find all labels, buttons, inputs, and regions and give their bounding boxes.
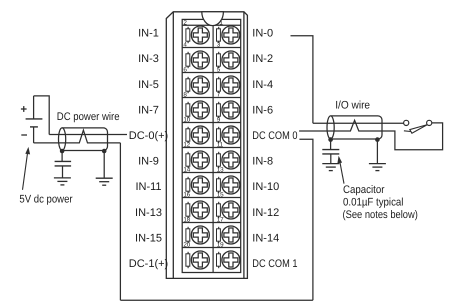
svg-text:19: 19 (217, 241, 224, 248)
wire battery+ top loop to DC-0(+) conductor (34, 96, 50, 135)
screw terminal 4 (pin 8) (191, 101, 209, 119)
svg-text:DC-0(+): DC-0(+) (129, 130, 168, 142)
svg-text:IN-4: IN-4 (252, 79, 273, 91)
screw terminal 2 (pin 3) (222, 51, 240, 69)
svg-text:DC COM 1: DC COM 1 (252, 258, 297, 270)
wire I/O shield right dot to ground (376, 140, 378, 164)
svg-text:IN-15: IN-15 (135, 232, 162, 244)
svg-text:I/O wire: I/O wire (335, 99, 370, 111)
cable jacket I/O wire (331, 116, 382, 139)
label See notes below (343, 209, 418, 221)
svg-text:IN-13: IN-13 (135, 207, 162, 219)
screw terminal 5 (pin 10) (191, 126, 209, 144)
wire clamp row 7 right (217, 177, 221, 193)
svg-text:DC power wire: DC power wire (57, 111, 120, 123)
wire battery- bottom conductor with twist (34, 130, 121, 143)
wire clamp row 7 left (186, 177, 190, 193)
wire clamp row 2 right (217, 52, 221, 68)
svg-text:IN-5: IN-5 (138, 79, 159, 91)
wire clamp row 5 right (217, 127, 221, 143)
svg-text:DC COM 0: DC COM 0 (252, 130, 297, 142)
wire clamp row 3 left (186, 77, 190, 93)
cable end ellipse (59, 128, 66, 151)
svg-text:Capacitor: Capacitor (343, 184, 385, 196)
battery BT1 5V dc power source (26, 96, 43, 143)
wire clamp row 1 left (186, 27, 190, 43)
wire clamp row 10 left (186, 252, 190, 268)
wire clamp row 5 left (186, 127, 190, 143)
wire down-left vertical to bottom rail (119, 143, 121, 300)
arrow from Capacitor label to C2 (337, 156, 344, 184)
ground (capacitor C2) (322, 164, 339, 171)
minus sign of battery (21, 134, 27, 136)
center divider of strip (212, 26, 214, 273)
svg-text:DC-1(+): DC-1(+) (129, 258, 168, 270)
screw terminal 1 (pin 1) (222, 26, 240, 44)
switch S1 left contact (404, 120, 409, 125)
node label DC COM 1 (252, 258, 297, 270)
screw terminal 1 (pin 2) (191, 26, 209, 44)
svg-text:IN-6: IN-6 (252, 104, 273, 116)
wire DC COM 0 branch down to bottom rail (299, 139, 313, 300)
label I/O wire (335, 99, 370, 111)
label 5V dc power (19, 193, 72, 205)
screw terminal 10 (pin 19) (222, 251, 240, 269)
switch S1 right contact (427, 120, 432, 125)
svg-text:IN-0: IN-0 (252, 28, 273, 40)
screw terminal 8 (pin 16) (191, 201, 209, 219)
wire clamp row 8 right (217, 202, 221, 218)
plus sign of battery (21, 106, 27, 112)
screw terminal 6 (pin 12) (191, 151, 209, 169)
wire clamp row 6 right (217, 152, 221, 168)
screw terminal 9 (pin 17) (222, 226, 240, 244)
wire clamp row 2 left (186, 52, 190, 68)
junction dot shield right (102, 149, 107, 154)
svg-text:IN-14: IN-14 (252, 232, 279, 244)
arrow from 5V dc power to wire (23, 147, 31, 190)
wire clamp row 3 right (217, 77, 221, 93)
wire clamp row 4 left (186, 102, 190, 118)
screw terminal 3 (pin 5) (222, 76, 240, 94)
screw terminal 4 (pin 7) (222, 101, 240, 119)
screw terminal 3 (pin 6) (191, 76, 209, 94)
capacitor C2 0.01uF (322, 140, 339, 164)
wire IN-0 to I/O cable (291, 36, 313, 123)
svg-text:5V dc power: 5V dc power (19, 193, 72, 205)
wire clamp row 8 left (186, 202, 190, 218)
svg-text:IN-12: IN-12 (252, 207, 279, 219)
ground (left capacitor) (54, 178, 71, 185)
junction dot I/O shield right (375, 137, 380, 142)
wire clamp row 9 left (186, 227, 190, 243)
junction dot I/O shield left (328, 137, 333, 142)
label DC power wire (57, 111, 120, 123)
wire clamp row 9 right (217, 227, 221, 243)
label Capacitor (343, 184, 385, 196)
svg-text:12: 12 (183, 141, 190, 148)
svg-text:17: 17 (217, 216, 224, 223)
screw terminal 10 (pin 20) (191, 251, 209, 269)
svg-text:IN-10: IN-10 (252, 181, 279, 193)
svg-text:11: 11 (217, 141, 224, 148)
ground (right of DC power wire) (96, 178, 113, 185)
switch S1 lever (404, 125, 428, 134)
svg-text:18: 18 (183, 216, 190, 223)
wire bottom rail (120, 299, 313, 301)
terminal block inner strip (182, 19, 241, 272)
cable jacket DC power wire (62, 128, 107, 151)
wire IN-0 conductor to switch (313, 122, 404, 124)
svg-text:(See notes below): (See notes below) (343, 209, 418, 221)
svg-text:IN-11: IN-11 (135, 181, 161, 193)
screw terminal 7 (pin 14) (191, 176, 209, 194)
svg-text:16: 16 (183, 191, 190, 198)
svg-text:20: 20 (183, 241, 190, 248)
node label DC COM 0 (252, 130, 297, 142)
capacitor C1 (left shield) (55, 151, 72, 178)
svg-text:IN-9: IN-9 (138, 156, 159, 168)
screw terminal 7 (pin 13) (222, 176, 240, 194)
wire clamp row 4 right (217, 102, 221, 118)
wire DC COM 0 conductor with twist, return loop to switch (299, 120, 443, 150)
screw terminal 6 (pin 11) (222, 151, 240, 169)
svg-text:IN-2: IN-2 (252, 53, 273, 65)
ground (right of I/O wire) (369, 164, 386, 171)
wire conductor to DC-0(+) terminal (49, 134, 127, 136)
junction dot shield left (60, 149, 65, 154)
wire shield right dot to ground (103, 151, 105, 178)
screw terminal 2 (pin 4) (191, 51, 209, 69)
screw terminal 9 (pin 18) (191, 226, 209, 244)
screw terminal 8 (pin 15) (222, 201, 240, 219)
wire clamp row 10 right (217, 252, 221, 268)
svg-text:15: 15 (217, 191, 224, 198)
svg-text:IN-3: IN-3 (138, 53, 159, 65)
wire clamp row 1 right (217, 27, 221, 43)
svg-text:13: 13 (217, 166, 224, 173)
terminal block TB1 outer shell (166, 12, 247, 279)
svg-text:IN-7: IN-7 (138, 104, 159, 116)
cable end ellipse (I/O wire) (327, 116, 334, 139)
label 0.01uF typical (343, 196, 403, 208)
keying notch dome at top center (202, 12, 224, 26)
svg-text:0.01µF typical: 0.01µF typical (343, 196, 403, 208)
svg-text:IN-8: IN-8 (252, 156, 273, 168)
wire clamp row 6 left (186, 152, 190, 168)
screw terminal 5 (pin 9) (222, 126, 240, 144)
svg-text:14: 14 (183, 166, 190, 173)
svg-text:IN-1: IN-1 (138, 28, 159, 40)
svg-text:10: 10 (183, 116, 190, 123)
